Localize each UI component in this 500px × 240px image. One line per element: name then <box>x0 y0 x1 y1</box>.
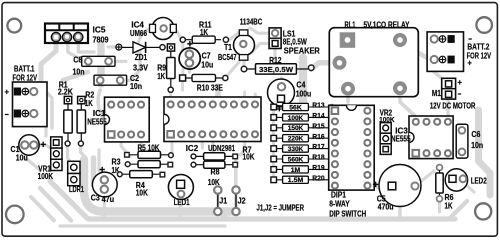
svg-text:1M: 1M <box>291 167 301 174</box>
svg-text:R16: R16 <box>312 132 325 141</box>
svg-text:LED1: LED1 <box>174 197 190 207</box>
svg-text:10n: 10n <box>73 66 85 76</box>
svg-text:10K: 10K <box>136 188 148 198</box>
svg-text:R15: R15 <box>312 121 325 130</box>
svg-text:DIP SWITCH: DIP SWITCH <box>329 208 366 218</box>
svg-text:R14: R14 <box>312 111 325 120</box>
svg-text:1K: 1K <box>157 71 165 81</box>
svg-text:100u: 100u <box>296 88 312 98</box>
svg-text:R19: R19 <box>312 163 325 172</box>
svg-text:FOR 12V: FOR 12V <box>13 73 38 83</box>
svg-text:R10 33E: R10 33E <box>197 82 223 92</box>
svg-text:BC547: BC547 <box>218 52 237 62</box>
svg-text:2.2K: 2.2K <box>58 87 73 97</box>
svg-text:SPEAKER: SPEAKER <box>284 45 320 55</box>
svg-text:1134BC: 1134BC <box>240 17 262 27</box>
svg-text:+: + <box>467 58 472 68</box>
svg-text:UM66: UM66 <box>130 28 147 38</box>
svg-text:+: + <box>458 77 463 87</box>
svg-text:10u: 10u <box>16 152 28 162</box>
svg-text:J2: J2 <box>238 196 246 206</box>
svg-text:-: - <box>458 88 462 98</box>
svg-text:IC2: IC2 <box>186 143 199 153</box>
svg-text:5V,1CO RELAY: 5V,1CO RELAY <box>364 19 410 29</box>
svg-text:8-WAY: 8-WAY <box>329 198 350 208</box>
svg-text:J1,J2 = JUMPER: J1,J2 = JUMPER <box>257 202 305 212</box>
svg-text:RL1: RL1 <box>345 19 356 29</box>
svg-text:NE555: NE555 <box>87 117 107 127</box>
svg-text:220K: 220K <box>288 136 304 143</box>
svg-text:1.5M: 1.5M <box>288 177 304 184</box>
svg-text:1K: 1K <box>85 98 93 108</box>
svg-text:C8: C8 <box>73 55 82 65</box>
svg-text:10K: 10K <box>243 151 255 161</box>
svg-text:J1: J1 <box>219 196 227 206</box>
svg-text:-: - <box>5 109 10 119</box>
svg-text:10u: 10u <box>201 59 213 69</box>
svg-text:NE555: NE555 <box>391 134 411 144</box>
svg-text:LDR1: LDR1 <box>69 184 84 194</box>
svg-text:12V DC MOTOR: 12V DC MOTOR <box>430 101 476 111</box>
svg-text:R13: R13 <box>312 101 325 110</box>
svg-text:C6: C6 <box>471 129 480 139</box>
svg-text:100K: 100K <box>38 171 54 181</box>
svg-text:33E,0.5W: 33E,0.5W <box>259 65 293 74</box>
svg-text:UDN2981: UDN2981 <box>208 143 235 153</box>
svg-text:1K: 1K <box>445 201 453 211</box>
svg-text:150K: 150K <box>288 125 304 132</box>
svg-text:10n: 10n <box>130 81 142 91</box>
svg-text:100K: 100K <box>288 115 304 122</box>
svg-text:+: + <box>5 87 10 97</box>
svg-text:330K: 330K <box>288 146 304 153</box>
svg-text:560K: 560K <box>288 156 304 163</box>
svg-text:R18: R18 <box>312 153 325 162</box>
svg-text:R17: R17 <box>312 142 325 151</box>
svg-text:47u: 47u <box>102 194 115 204</box>
svg-text:LED2: LED2 <box>471 176 487 186</box>
svg-text:T1: T1 <box>224 42 232 52</box>
svg-text:56K: 56K <box>289 104 302 111</box>
svg-text:IC5: IC5 <box>93 24 106 34</box>
svg-text:M1: M1 <box>432 88 441 98</box>
svg-text:ZD1: ZD1 <box>135 52 148 62</box>
svg-text:1K: 1K <box>200 27 208 37</box>
svg-text:C3: C3 <box>91 193 100 203</box>
svg-text:R20: R20 <box>312 173 325 182</box>
svg-text:3.3V: 3.3V <box>133 63 148 73</box>
svg-text:10n: 10n <box>471 140 483 150</box>
svg-text:470u: 470u <box>378 202 394 212</box>
svg-text:7809: 7809 <box>93 34 109 44</box>
